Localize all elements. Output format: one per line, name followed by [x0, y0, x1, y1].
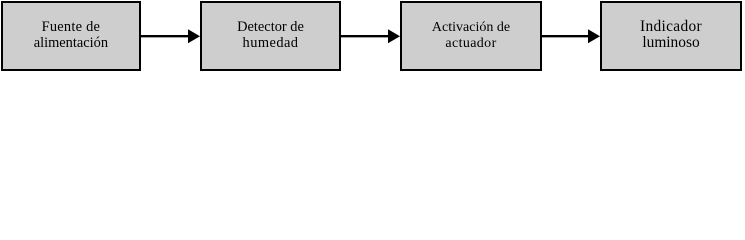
arrow 1: Fuente de alimentación -> Detector de humedad: [0, 0, 745, 72]
box: Detector de humedad: [200, 1, 341, 71]
arrow 2: Detector de humedad -> Activación de actuador: [341, 35, 389, 37]
box: Activación de actuador: [400, 1, 542, 71]
arrow 3: Activación de actuador -> Indicador luminoso: [542, 35, 589, 37]
box: Fuente de alimentación: [1, 1, 141, 71]
box: Indicador luminoso: [600, 1, 742, 71]
